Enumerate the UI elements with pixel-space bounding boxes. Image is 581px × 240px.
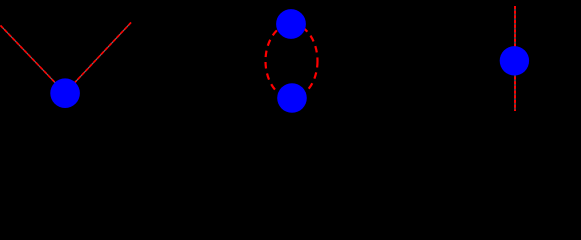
node: middle diagram upper vertex (blue dot) (276, 9, 306, 39)
node: right diagram vertex (blue dot) (500, 46, 529, 75)
node: left diagram vertex (blue dot) (50, 78, 80, 108)
node: middle diagram lower vertex (blue dot) (277, 83, 307, 113)
wire: right diagram, red dashed vertical line (514, 6, 516, 111)
wire: left diagram, red dashed upper-left leg (1, 26, 66, 94)
wire: middle diagram, red dashed loop (ellipse) (266, 24, 318, 98)
wire: left diagram, red dashed upper-right leg (65, 23, 131, 94)
wire: left diagram, gray core of upper-left dashed leg (1, 26, 66, 94)
wire: right diagram, gray core of vertical dashed line (514, 6, 516, 111)
wire: left diagram, gray core of upper-right dashed leg (65, 23, 131, 94)
